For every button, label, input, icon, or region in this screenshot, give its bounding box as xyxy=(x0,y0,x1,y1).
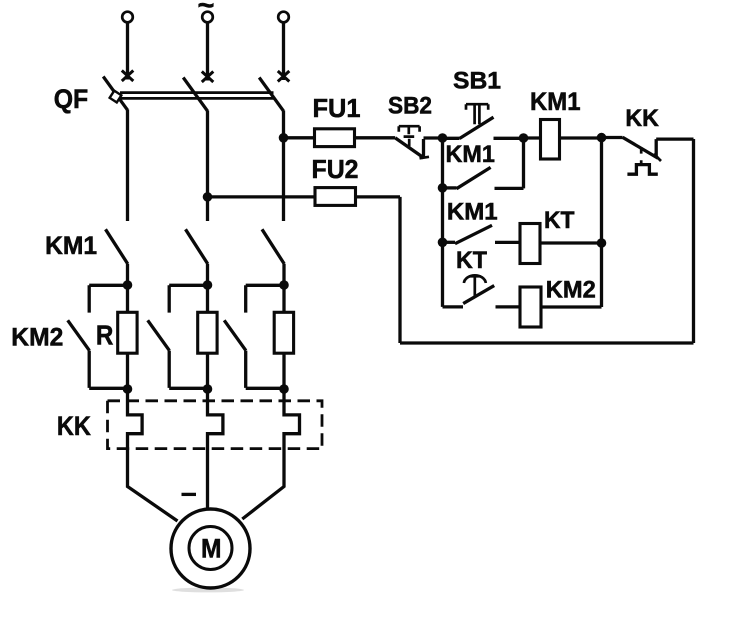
svg-text:R: R xyxy=(96,319,114,350)
svg-text:SB2: SB2 xyxy=(388,93,432,120)
svg-text:KT: KT xyxy=(544,207,575,234)
svg-text:KM1: KM1 xyxy=(447,198,498,225)
svg-text:KM2: KM2 xyxy=(546,276,596,303)
svg-text:M: M xyxy=(201,534,222,564)
svg-text:KK: KK xyxy=(625,105,659,132)
svg-text:~: ~ xyxy=(198,0,215,22)
svg-text:QF: QF xyxy=(54,84,88,114)
svg-text:SB1: SB1 xyxy=(453,67,501,94)
svg-text:KK: KK xyxy=(57,411,91,441)
svg-text:KT: KT xyxy=(456,247,487,274)
svg-text:KM1: KM1 xyxy=(446,141,495,168)
svg-text:FU2: FU2 xyxy=(312,154,359,184)
svg-text:FU1: FU1 xyxy=(313,93,361,123)
svg-text:KM1: KM1 xyxy=(45,232,97,260)
svg-text:KM1: KM1 xyxy=(530,88,581,116)
svg-text:KM2: KM2 xyxy=(11,323,63,351)
